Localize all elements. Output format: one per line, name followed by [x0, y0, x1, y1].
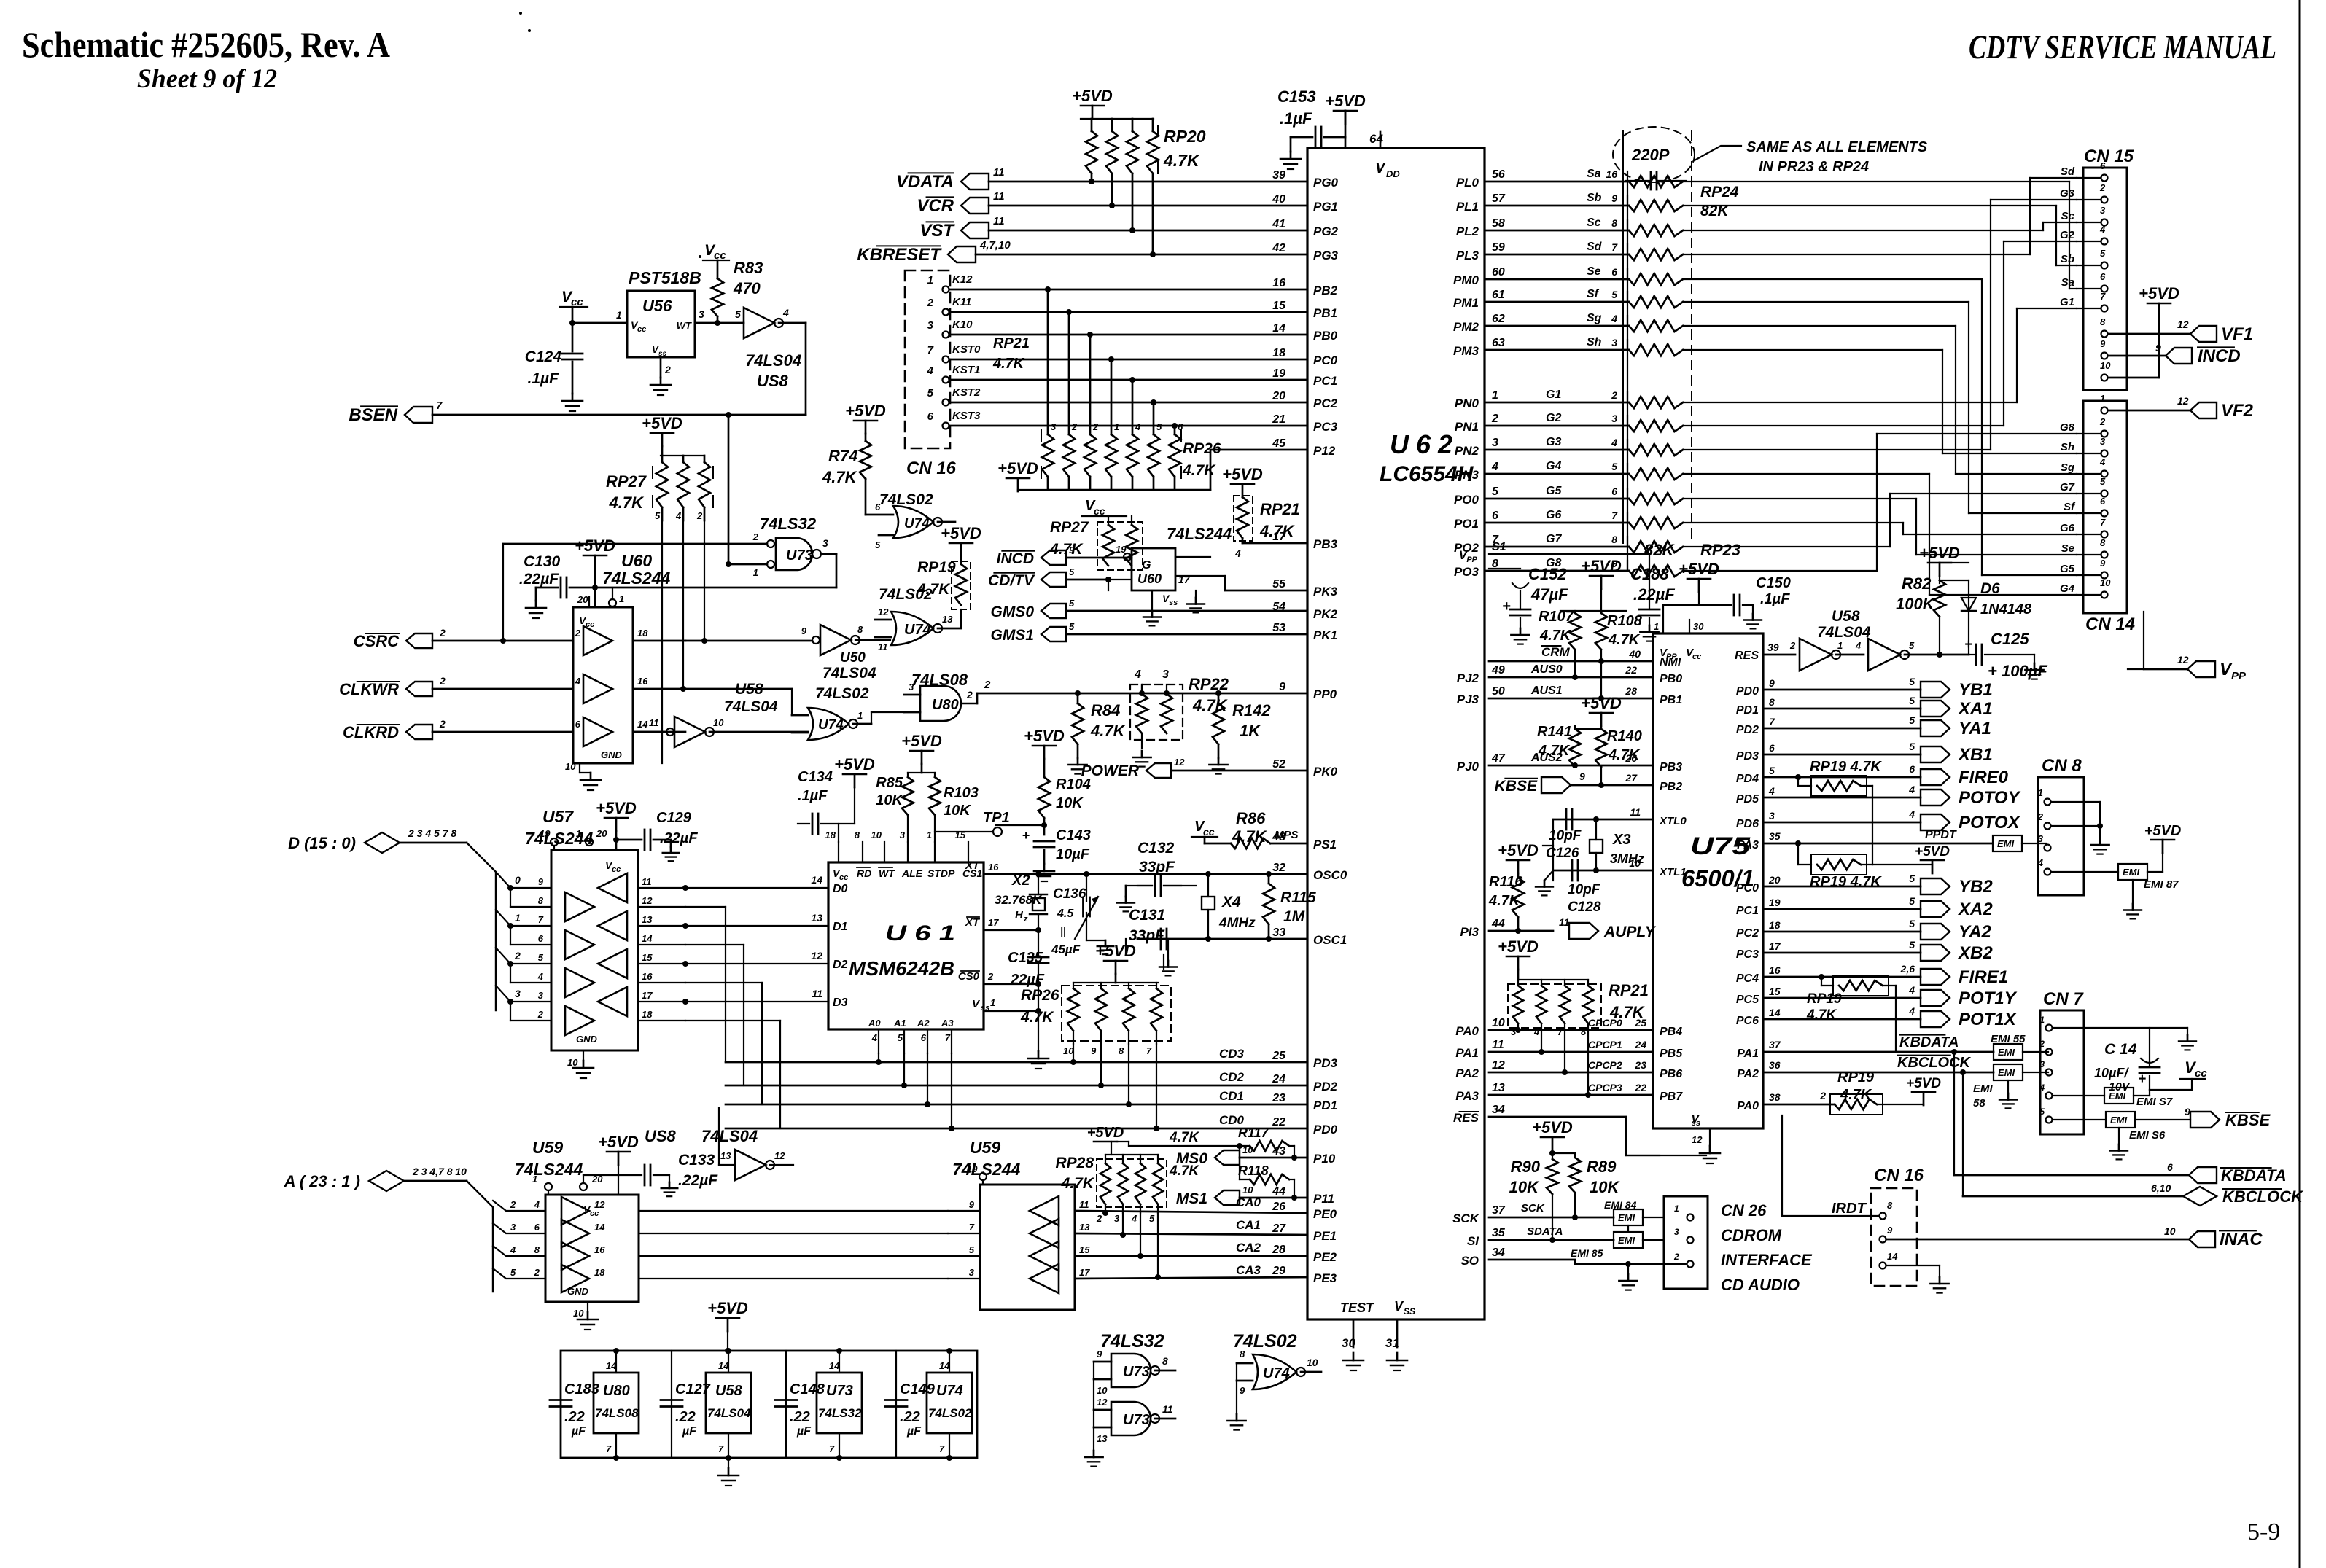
svg-text:RP21: RP21	[993, 335, 1030, 351]
svg-text:U57: U57	[542, 807, 574, 826]
svg-text:K11: K11	[952, 296, 971, 308]
svg-text:CN 26: CN 26	[1721, 1201, 1767, 1220]
svg-text:XT: XT	[965, 916, 981, 929]
svg-text:4: 4	[1908, 784, 1915, 795]
svg-text:2: 2	[1071, 421, 1078, 432]
svg-text:4: 4	[575, 676, 581, 687]
svg-text:A1: A1	[893, 1018, 906, 1029]
svg-text:41: 41	[1272, 218, 1285, 230]
svg-text:6: 6	[875, 502, 881, 512]
svg-text:2: 2	[752, 531, 759, 542]
svg-text:7: 7	[2100, 291, 2106, 302]
svg-text:R84: R84	[1091, 701, 1120, 719]
svg-text:6,10: 6,10	[2151, 1182, 2171, 1194]
svg-text:2: 2	[534, 1267, 540, 1278]
svg-text:4.5: 4.5	[1057, 908, 1074, 920]
svg-text:74LS244: 74LS244	[1167, 525, 1232, 543]
svg-text:4: 4	[537, 971, 544, 982]
svg-text:PB5: PB5	[1660, 1048, 1683, 1060]
svg-text:60: 60	[1492, 266, 1505, 278]
svg-text:+: +	[1022, 828, 1030, 843]
svg-text:62: 62	[1492, 313, 1505, 325]
svg-text:10µF/: 10µF/	[2094, 1066, 2129, 1080]
svg-text:PB2: PB2	[1660, 781, 1682, 793]
svg-text:74LS02: 74LS02	[879, 491, 933, 508]
svg-text:19: 19	[1272, 367, 1285, 380]
svg-text:+5VD: +5VD	[2144, 823, 2182, 839]
svg-text:XT: XT	[965, 859, 981, 872]
svg-text:+5VD: +5VD	[941, 524, 981, 542]
svg-text:11: 11	[1559, 916, 1570, 928]
svg-text:XA1: XA1	[1957, 699, 1993, 719]
svg-text:6: 6	[1611, 266, 1617, 278]
svg-text:CD1: CD1	[1219, 1089, 1244, 1103]
svg-text:18: 18	[1272, 347, 1285, 359]
svg-text:63: 63	[1492, 337, 1505, 349]
svg-text:1: 1	[2039, 1015, 2045, 1025]
svg-text:10pF: 10pF	[1568, 882, 1601, 897]
svg-text:14: 14	[1887, 1251, 1898, 1262]
svg-text:Sa: Sa	[2061, 276, 2074, 289]
svg-text:V: V	[1375, 160, 1386, 176]
svg-text:EMI S7: EMI S7	[2136, 1096, 2173, 1108]
svg-text:R82: R82	[1902, 574, 1932, 593]
svg-text:RP21: RP21	[1260, 500, 1300, 518]
svg-text:20: 20	[1272, 390, 1285, 402]
svg-text:SCK: SCK	[1452, 1212, 1480, 1225]
svg-text:2: 2	[1611, 389, 1617, 401]
svg-text:cc: cc	[612, 865, 621, 874]
svg-text:16: 16	[594, 1244, 605, 1255]
svg-text:+5VD: +5VD	[1095, 942, 1136, 960]
svg-text:74LS32: 74LS32	[1100, 1331, 1164, 1351]
svg-text:24: 24	[1272, 1073, 1285, 1085]
svg-text:SO: SO	[1460, 1254, 1479, 1268]
svg-text:PC0: PC0	[1313, 354, 1338, 367]
svg-text:D0: D0	[833, 883, 848, 895]
svg-text:U74: U74	[818, 717, 844, 733]
svg-text:U60: U60	[621, 551, 652, 570]
svg-text:22: 22	[1272, 1116, 1285, 1128]
svg-text:CLKRD: CLKRD	[343, 723, 399, 741]
svg-text:RP26: RP26	[1021, 987, 1059, 1004]
svg-text:5: 5	[1069, 598, 1075, 609]
svg-text:100K: 100K	[1896, 595, 1936, 613]
svg-text:G3: G3	[2060, 187, 2075, 200]
svg-text:10: 10	[2100, 577, 2111, 588]
svg-text:PK0: PK0	[1313, 765, 1338, 779]
svg-text:IRDT: IRDT	[1832, 1201, 1867, 1217]
svg-text:PO1: PO1	[1454, 517, 1479, 531]
svg-text:PP: PP	[1466, 555, 1477, 564]
svg-text:4.7K: 4.7K	[1806, 1007, 1837, 1023]
svg-text:4: 4	[1611, 437, 1617, 448]
svg-text:11: 11	[993, 190, 1005, 203]
svg-text:15: 15	[642, 952, 653, 963]
svg-text:+5VD: +5VD	[901, 732, 942, 750]
svg-text:2: 2	[439, 627, 446, 639]
svg-text:5: 5	[927, 387, 934, 399]
svg-text:Se: Se	[1587, 265, 1601, 278]
svg-text:30: 30	[1342, 1336, 1355, 1350]
svg-text:74LS32: 74LS32	[760, 515, 817, 533]
svg-text:5: 5	[1909, 939, 1915, 951]
svg-text:K12: K12	[952, 273, 973, 286]
svg-text:74LS244: 74LS244	[525, 829, 594, 848]
svg-text:PA3: PA3	[1737, 839, 1759, 851]
svg-text:cc: cc	[1094, 505, 1105, 517]
svg-text:9: 9	[1091, 1045, 1097, 1056]
svg-text:D6: D6	[1980, 580, 2000, 597]
svg-text:40: 40	[1628, 648, 1641, 660]
svg-text:6: 6	[2100, 496, 2106, 507]
svg-text:2: 2	[966, 689, 973, 701]
svg-text:POWER: POWER	[1081, 762, 1140, 779]
svg-text:RP20: RP20	[1164, 127, 1206, 146]
svg-text:U58: U58	[735, 681, 763, 698]
svg-text:RP28: RP28	[1055, 1155, 1094, 1171]
svg-text:PB7: PB7	[1660, 1091, 1683, 1103]
svg-text:36: 36	[1769, 1059, 1781, 1071]
svg-text:12: 12	[1492, 1059, 1505, 1072]
svg-text:CPCP2: CPCP2	[1588, 1059, 1622, 1071]
svg-text:5: 5	[1069, 621, 1075, 632]
svg-text:XTL1: XTL1	[1659, 866, 1687, 878]
svg-text:3: 3	[1769, 810, 1775, 822]
svg-text:9: 9	[1769, 677, 1775, 689]
svg-text:3: 3	[1162, 668, 1169, 681]
svg-text:+: +	[1964, 637, 1972, 652]
svg-text:64: 64	[1369, 132, 1383, 146]
svg-text:CDTV SERVICE MANUAL: CDTV SERVICE MANUAL	[1969, 28, 2276, 66]
svg-text:11: 11	[993, 166, 1005, 179]
svg-text:+5VD: +5VD	[1024, 727, 1065, 745]
svg-text:18: 18	[594, 1267, 605, 1278]
svg-text:13: 13	[942, 614, 953, 625]
svg-text:4: 4	[782, 307, 789, 319]
svg-text:2: 2	[1819, 1090, 1826, 1101]
svg-text:Sd: Sd	[2061, 165, 2075, 178]
svg-text:5: 5	[875, 539, 881, 550]
svg-text:CD3: CD3	[1219, 1047, 1245, 1061]
svg-text:74LS04: 74LS04	[745, 351, 801, 370]
svg-text:9: 9	[1611, 192, 1617, 204]
svg-text:3: 3	[1114, 1213, 1120, 1224]
svg-text:1: 1	[990, 997, 995, 1008]
svg-text:cc: cc	[1692, 652, 1701, 661]
svg-text:4.7K: 4.7K	[1163, 151, 1200, 170]
svg-text:D1: D1	[833, 921, 848, 933]
svg-text:14: 14	[1272, 322, 1285, 335]
svg-text:1: 1	[619, 593, 624, 604]
svg-text:6: 6	[1769, 742, 1775, 754]
svg-text:PB2: PB2	[1313, 284, 1338, 297]
svg-text:3: 3	[900, 830, 906, 840]
svg-text:35: 35	[1769, 830, 1781, 842]
svg-text:VF1: VF1	[2221, 324, 2253, 344]
svg-text:PL2: PL2	[1456, 225, 1479, 238]
svg-text:R140: R140	[1607, 728, 1642, 744]
svg-text:4: 4	[1611, 313, 1617, 324]
svg-text:1: 1	[576, 828, 581, 839]
svg-text:4.7K: 4.7K	[992, 356, 1025, 372]
svg-text:+5VD: +5VD	[1679, 560, 1719, 578]
svg-text:G4: G4	[1546, 460, 1561, 472]
svg-text:31: 31	[1385, 1336, 1399, 1350]
svg-text:C 14: C 14	[2104, 1041, 2137, 1058]
svg-text:5: 5	[1611, 461, 1617, 472]
svg-text:25: 25	[1272, 1050, 1286, 1062]
svg-text:1K: 1K	[1240, 722, 1261, 740]
svg-text:2: 2	[1092, 421, 1099, 432]
svg-text:+5VD: +5VD	[2139, 284, 2179, 303]
svg-text:RES: RES	[1735, 650, 1759, 662]
svg-text:C153: C153	[1277, 87, 1316, 106]
svg-text:2: 2	[927, 297, 934, 309]
svg-text:+5VD: +5VD	[642, 414, 682, 432]
svg-text:CA0: CA0	[1236, 1195, 1261, 1209]
svg-text:10: 10	[713, 717, 724, 728]
svg-text:1: 1	[857, 710, 863, 721]
svg-text:2: 2	[514, 950, 521, 962]
svg-text:EMI: EMI	[1973, 1083, 1994, 1095]
svg-text:5: 5	[1909, 873, 1915, 884]
svg-text:57: 57	[1492, 192, 1506, 205]
svg-text:16: 16	[642, 971, 653, 982]
svg-text:VCR: VCR	[917, 196, 954, 216]
svg-text:+5VD: +5VD	[845, 402, 886, 420]
svg-text:cc: cc	[637, 325, 646, 334]
svg-text:2: 2	[987, 971, 994, 982]
svg-text:PM0: PM0	[1453, 273, 1479, 287]
svg-text:RP27: RP27	[1050, 519, 1089, 536]
svg-text:+5VD: +5VD	[1532, 1118, 1573, 1136]
svg-text:16: 16	[1769, 964, 1781, 976]
svg-text:PK1: PK1	[1313, 628, 1337, 642]
svg-text:4: 4	[1908, 984, 1915, 996]
svg-text:µF: µF	[796, 1425, 812, 1438]
svg-text:2: 2	[537, 1009, 544, 1020]
svg-text:+: +	[1502, 598, 1511, 615]
svg-text:CA1: CA1	[1236, 1218, 1261, 1232]
svg-text:.22: .22	[790, 1409, 810, 1425]
svg-text:MS1: MS1	[1176, 1190, 1207, 1207]
svg-text:10: 10	[871, 830, 882, 840]
svg-text:19: 19	[1116, 544, 1127, 555]
svg-text:+5VD: +5VD	[1087, 1125, 1124, 1141]
svg-text:2: 2	[439, 718, 446, 730]
svg-text:C126: C126	[1546, 846, 1579, 861]
svg-text:3: 3	[1611, 337, 1617, 348]
svg-text:GMS1: GMS1	[990, 627, 1034, 644]
svg-text:DD: DD	[1386, 168, 1400, 179]
svg-text:19: 19	[967, 1163, 978, 1174]
svg-text:10: 10	[567, 1057, 578, 1068]
svg-text:4: 4	[1491, 461, 1498, 473]
svg-text:9: 9	[969, 1199, 975, 1210]
svg-text:KBDATA: KBDATA	[1899, 1034, 1959, 1050]
svg-text:29: 29	[1272, 1265, 1285, 1277]
svg-text:4.7K: 4.7K	[1020, 1009, 1054, 1026]
svg-text:5: 5	[655, 510, 661, 521]
svg-text:PB0: PB0	[1660, 673, 1682, 685]
svg-text:3: 3	[909, 682, 914, 693]
svg-text:EMI 55: EMI 55	[1991, 1033, 2026, 1045]
svg-text:U74: U74	[904, 622, 931, 638]
svg-text:CPCP1: CPCP1	[1588, 1039, 1622, 1050]
svg-text:PST518B: PST518B	[629, 268, 701, 287]
svg-text:44: 44	[1491, 918, 1505, 930]
svg-text:6: 6	[2100, 160, 2106, 171]
svg-text:G6: G6	[2060, 522, 2075, 534]
svg-text:V: V	[1394, 1299, 1404, 1314]
svg-text:10K: 10K	[876, 792, 903, 808]
svg-text:OSC0: OSC0	[1313, 868, 1347, 882]
svg-text:10: 10	[2100, 360, 2111, 371]
svg-text:11: 11	[1162, 1403, 1173, 1415]
svg-text:74LS02: 74LS02	[928, 1406, 972, 1420]
svg-text:PB0: PB0	[1313, 329, 1338, 343]
svg-text:7: 7	[1769, 716, 1775, 728]
svg-text:INTERFACE: INTERFACE	[1721, 1251, 1813, 1269]
svg-text:18: 18	[642, 1009, 653, 1020]
svg-text:10: 10	[1097, 1385, 1108, 1396]
svg-text:G7: G7	[1546, 533, 1562, 545]
svg-text:RP19 4.7K: RP19 4.7K	[1810, 759, 1882, 775]
svg-text:U50: U50	[840, 650, 866, 666]
svg-text:G1: G1	[1546, 389, 1561, 401]
svg-text:3: 3	[2100, 205, 2106, 216]
svg-text:PA2: PA2	[1737, 1068, 1759, 1080]
svg-text:PL3: PL3	[1456, 249, 1479, 262]
svg-text:PA0: PA0	[1455, 1024, 1479, 1038]
svg-text:R90: R90	[1511, 1158, 1541, 1176]
svg-text:Sf: Sf	[1587, 288, 1600, 300]
svg-text:23: 23	[1272, 1092, 1285, 1104]
svg-text:STDP: STDP	[927, 867, 955, 879]
svg-text:PM1: PM1	[1453, 296, 1479, 310]
svg-text:.22µF: .22µF	[519, 571, 559, 588]
svg-text:3: 3	[510, 1222, 516, 1233]
svg-text:8: 8	[857, 624, 863, 635]
svg-text:32: 32	[1272, 862, 1285, 874]
svg-text:10: 10	[1307, 1357, 1318, 1368]
svg-text:12: 12	[2177, 395, 2189, 407]
svg-text:59: 59	[1492, 241, 1505, 254]
svg-text:PE2: PE2	[1313, 1250, 1337, 1264]
svg-text:CA2: CA2	[1236, 1241, 1261, 1255]
svg-text:MSM6242B: MSM6242B	[849, 957, 954, 980]
svg-text:9: 9	[1279, 681, 1285, 693]
svg-text:+5VD: +5VD	[1498, 937, 1539, 956]
svg-text:C134: C134	[798, 769, 833, 785]
svg-text:.22µF: .22µF	[1633, 585, 1675, 604]
svg-text:3: 3	[2039, 1059, 2045, 1069]
svg-text:PL0: PL0	[1456, 176, 1479, 190]
svg-text:4: 4	[675, 510, 682, 521]
svg-text:15: 15	[1272, 300, 1286, 312]
svg-text:1: 1	[1837, 640, 1843, 651]
svg-text:C130: C130	[524, 553, 561, 570]
svg-text:19: 19	[540, 828, 551, 839]
svg-text:6: 6	[921, 1032, 927, 1043]
svg-text:Sb: Sb	[2061, 253, 2074, 265]
svg-text:10: 10	[1492, 1017, 1505, 1029]
svg-text:470: 470	[733, 279, 761, 297]
svg-text:5: 5	[1156, 421, 1162, 432]
svg-text:PJ3: PJ3	[1457, 693, 1479, 706]
svg-text:4.7K: 4.7K	[1169, 1163, 1199, 1179]
svg-text:RP27: RP27	[606, 472, 647, 491]
svg-text:EMI: EMI	[1618, 1235, 1635, 1246]
svg-text:U58: U58	[715, 1383, 743, 1399]
svg-text:KBCLOCK: KBCLOCK	[2222, 1187, 2304, 1206]
svg-text:39: 39	[1272, 169, 1285, 182]
svg-text:2: 2	[1789, 640, 1796, 651]
svg-text:U74: U74	[1263, 1365, 1290, 1381]
svg-text:YB2: YB2	[1959, 877, 1993, 897]
svg-text:EMI 84: EMI 84	[1604, 1199, 1637, 1211]
svg-text:PC3: PC3	[1736, 948, 1759, 961]
svg-text:PA0: PA0	[1737, 1100, 1759, 1112]
svg-text:C143: C143	[1056, 827, 1091, 843]
svg-text:5: 5	[898, 1032, 903, 1043]
svg-text:G2: G2	[2060, 229, 2075, 241]
svg-text:GMS0: GMS0	[990, 604, 1034, 620]
svg-text:XA2: XA2	[1957, 900, 1993, 919]
svg-text:RP19: RP19	[917, 559, 956, 576]
svg-text:22: 22	[1634, 1082, 1646, 1093]
svg-text:H: H	[1015, 909, 1024, 921]
svg-text:14: 14	[829, 1360, 840, 1371]
svg-text:P11: P11	[1313, 1192, 1334, 1206]
svg-text:5-9: 5-9	[2247, 1518, 2280, 1545]
svg-text:PL1: PL1	[1456, 200, 1479, 214]
svg-text:PB6: PB6	[1660, 1068, 1682, 1080]
svg-text:R86: R86	[1236, 809, 1266, 827]
svg-text:4: 4	[1134, 668, 1141, 681]
svg-text:RES: RES	[1453, 1111, 1479, 1125]
svg-text:PS1: PS1	[1313, 838, 1337, 851]
svg-text:58: 58	[1973, 1097, 1985, 1109]
svg-text:CS0: CS0	[958, 970, 980, 983]
svg-text:PD3: PD3	[1313, 1056, 1338, 1070]
svg-text:25: 25	[1634, 1017, 1646, 1029]
svg-text:KST1: KST1	[952, 364, 980, 376]
svg-text:4.7K: 4.7K	[1539, 628, 1572, 644]
svg-text:U73: U73	[786, 547, 813, 563]
svg-text:4: 4	[1131, 1213, 1137, 1224]
svg-text:4: 4	[1533, 1026, 1540, 1037]
svg-text:.1µF: .1µF	[1760, 591, 1790, 607]
svg-text:50: 50	[1492, 685, 1505, 698]
svg-text:4: 4	[1908, 808, 1915, 820]
svg-text:+5VD: +5VD	[1498, 841, 1539, 859]
svg-text:4,7,10: 4,7,10	[979, 239, 1011, 251]
svg-text:R117: R117	[1238, 1126, 1269, 1140]
svg-text:8: 8	[1162, 1355, 1168, 1367]
svg-text:U74: U74	[904, 516, 930, 531]
svg-text:7: 7	[969, 1222, 975, 1233]
svg-text:z: z	[1023, 915, 1028, 924]
svg-text:PI3: PI3	[1460, 925, 1479, 939]
svg-text:53: 53	[1272, 622, 1285, 634]
svg-text:EMI: EMI	[1618, 1212, 1635, 1223]
svg-text:9: 9	[538, 876, 544, 887]
svg-text:21: 21	[1272, 413, 1285, 426]
svg-text:PP: PP	[2231, 670, 2247, 682]
svg-text:74LS02: 74LS02	[815, 685, 869, 702]
